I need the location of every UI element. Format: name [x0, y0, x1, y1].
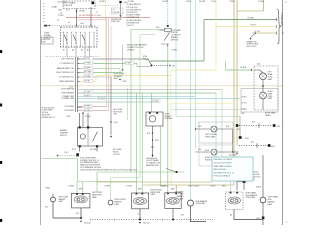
svg-text:18 ORN: 18 ORN — [162, 1, 169, 3]
svg-text:27 GRN: 27 GRN — [128, 1, 135, 3]
svg-text:PLATE LAMP: PLATE LAMP — [205, 135, 216, 138]
svg-text:C410: C410 — [257, 64, 261, 66]
svg-text:DETAILS CELL 11: DETAILS CELL 11 — [42, 116, 56, 119]
svg-text:LT GRN: LT GRN — [84, 63, 91, 65]
svg-text:18 GRA: 18 GRA — [84, 75, 91, 78]
svg-text:(2) RED: (2) RED — [58, 15, 64, 17]
svg-text:27 GRN: 27 GRN — [84, 92, 91, 94]
svg-text:17 GRN: 17 GRN — [160, 186, 167, 188]
svg-text:18 B: 18 B — [198, 149, 201, 151]
svg-text:FOR G400 DETAILS: FOR G400 DETAILS — [214, 175, 231, 178]
svg-text:FUSE 15 A: FUSE 15 A — [111, 20, 120, 23]
svg-text:18 RED: 18 RED — [84, 106, 91, 108]
svg-text:GRN: GRN — [156, 27, 159, 29]
svg-text:TURN LAMP: TURN LAMP — [246, 196, 257, 199]
svg-text:LT TURN IND OUT: LT TURN IND OUT — [60, 63, 74, 65]
svg-text:40 ORN: 40 ORN — [99, 1, 106, 3]
svg-text:(W/ POLICE): (W/ POLICE) — [247, 46, 257, 48]
svg-text:OPTION: OPTION — [113, 154, 120, 156]
svg-text:STOP FEED: STOP FEED — [64, 106, 74, 108]
svg-text:STOP FEED: STOP FEED — [64, 110, 74, 112]
svg-text:DK GRN: DK GRN — [199, 1, 206, 3]
svg-text:CELL 110 FOR RIGHT: CELL 110 FOR RIGHT — [214, 163, 233, 165]
svg-text:C210: C210 — [69, 87, 73, 89]
svg-text:17 GRN: 17 GRN — [126, 186, 133, 188]
svg-text:PARK LAMP FEED: PARK LAMP FEED — [60, 80, 75, 83]
svg-text:APPLIED: APPLIED — [171, 38, 179, 41]
svg-text:FEED: FEED — [114, 78, 119, 80]
svg-text:18 ORN: 18 ORN — [79, 11, 86, 13]
svg-text:LEFT TURN SIG: LEFT TURN SIG — [61, 59, 74, 61]
svg-text:S770: S770 — [72, 149, 76, 151]
svg-text:27 GRN: 27 GRN — [152, 101, 159, 103]
svg-text:FLASHER: FLASHER — [165, 117, 174, 120]
svg-text:SEE BACK-UP LAMPS: SEE BACK-UP LAMPS — [214, 158, 233, 161]
svg-text:C305: C305 — [241, 113, 245, 115]
svg-text:TURN FLASHER: TURN FLASHER — [61, 92, 75, 95]
svg-text:DK GRN: DK GRN — [84, 72, 91, 74]
svg-text:CIRCUITS SEE GROUND DISTRIBUT: CIRCUITS SEE GROUND DISTRIBUTION CELL 14… — [80, 169, 137, 171]
svg-text:18 BLU: 18 BLU — [210, 186, 216, 188]
svg-text:LT GRN: LT GRN — [125, 63, 132, 65]
svg-text:LAMPS: LAMPS — [265, 114, 272, 117]
svg-text:18 YEL: 18 YEL — [84, 81, 90, 83]
svg-text:27 GRN: 27 GRN — [171, 49, 178, 51]
svg-text:FUSE BLK: FUSE BLK — [113, 12, 120, 14]
svg-text:C1: C1 — [96, 12, 98, 14]
svg-text:DETAILS: DETAILS — [127, 48, 135, 51]
svg-text:BLK: BLK — [45, 207, 48, 209]
svg-text:AND GROUND: AND GROUND — [214, 168, 227, 171]
svg-text:02: 02 — [286, 222, 288, 224]
svg-text:S207: S207 — [155, 140, 159, 142]
svg-text:27 YEL: 27 YEL — [242, 102, 247, 104]
svg-text:DIST: DIST — [43, 42, 47, 44]
svg-text:S420: S420 — [256, 218, 260, 220]
svg-text:CELL 14: CELL 14 — [127, 25, 134, 27]
svg-text:FUSE 20 A: FUSE 20 A — [64, 4, 73, 7]
svg-text:18 BLU: 18 BLU — [242, 96, 248, 98]
svg-text:TURN LAMP: TURN LAMP — [196, 202, 207, 205]
svg-text:C305: C305 — [245, 138, 249, 140]
svg-text:C100: C100 — [114, 122, 118, 124]
svg-text:RIGHT TURN SIG OUT: RIGHT TURN SIG OUT — [56, 72, 74, 74]
svg-text:(3) ORN WIRE W/O POLICE: (3) ORN WIRE W/O POLICE — [79, 15, 102, 17]
svg-text:DK GRN: DK GRN — [90, 149, 97, 151]
svg-text:G100 (4): G100 (4) — [84, 222, 91, 224]
svg-text:18 GRN: 18 GRN — [240, 67, 247, 69]
svg-text:DK GRN: DK GRN — [248, 17, 255, 19]
svg-text:27 YEL: 27 YEL — [255, 31, 260, 33]
svg-text:TO REAR LAMPS: TO REAR LAMPS — [280, 12, 283, 27]
svg-text:SWITCH: SWITCH — [60, 135, 67, 137]
svg-text:DISTRIBUTION CELL 14: DISTRIBUTION CELL 14 — [214, 172, 234, 174]
svg-text:27 PNK: 27 PNK — [258, 1, 264, 3]
svg-text:18 YEL: 18 YEL — [251, 24, 256, 26]
svg-text:18 WHT: 18 WHT — [84, 68, 90, 70]
svg-text:BLK: BLK — [181, 214, 184, 216]
svg-text:18 WHT: 18 WHT — [85, 116, 91, 118]
svg-text:MARKER LAMP CTRL: MARKER LAMP CTRL — [57, 67, 74, 70]
svg-text:SIDE: SIDE — [180, 194, 184, 196]
svg-text:18 BLU: 18 BLU — [186, 1, 192, 3]
svg-text:BLK: BLK — [76, 213, 79, 215]
svg-text:27 BRN: 27 BRN — [229, 1, 235, 3]
svg-text:27 YEL: 27 YEL — [211, 1, 216, 3]
svg-text:S230: S230 — [143, 56, 147, 58]
svg-text:17 GRN: 17 GRN — [104, 186, 111, 188]
svg-text:(2) 18 BLK: (2) 18 BLK — [229, 154, 238, 156]
svg-text:S421: S421 — [277, 126, 281, 128]
svg-text:C100: C100 — [80, 23, 84, 25]
svg-text:S236: S236 — [123, 81, 127, 83]
svg-text:18 PPL: 18 PPL — [84, 58, 90, 60]
svg-text:I/P: I/P — [113, 10, 115, 12]
svg-text:REAR LAMP DETAILS: REAR LAMP DETAILS — [214, 165, 233, 168]
svg-text:18 BLU: 18 BLU — [194, 186, 200, 188]
svg-text:LEFT FRONT: LEFT FRONT — [59, 196, 69, 198]
svg-text:S420: S420 — [271, 146, 275, 148]
svg-text:17 GRN: 17 GRN — [68, 186, 75, 188]
svg-text:18 RED: 18 RED — [84, 110, 91, 112]
svg-text:(2) BAT: (2) BAT — [51, 6, 57, 9]
svg-text:HARNESS S339: HARNESS S339 — [146, 164, 159, 167]
svg-text:C410: C410 — [237, 129, 241, 131]
svg-text:DK BLU: DK BLU — [98, 98, 105, 100]
svg-text:LT BLU: LT BLU — [84, 95, 90, 97]
svg-text:B4: B4 — [68, 22, 70, 24]
svg-text:B10: B10 — [252, 121, 255, 123]
svg-text:LT GRN: LT GRN — [158, 30, 165, 32]
svg-text:SEE PWR: SEE PWR — [43, 39, 51, 41]
svg-text:RT REAR TURN: RT REAR TURN — [62, 97, 75, 100]
svg-text:G117 (4): G117 (4) — [143, 223, 150, 225]
svg-text:C100: C100 — [64, 152, 68, 154]
svg-text:RT TURN IND OUT: RT TURN IND OUT — [59, 77, 74, 79]
svg-text:18 B: 18 B — [198, 126, 201, 128]
svg-text:C2: C2 — [285, 2, 287, 4]
svg-text:S421: S421 — [205, 150, 209, 152]
